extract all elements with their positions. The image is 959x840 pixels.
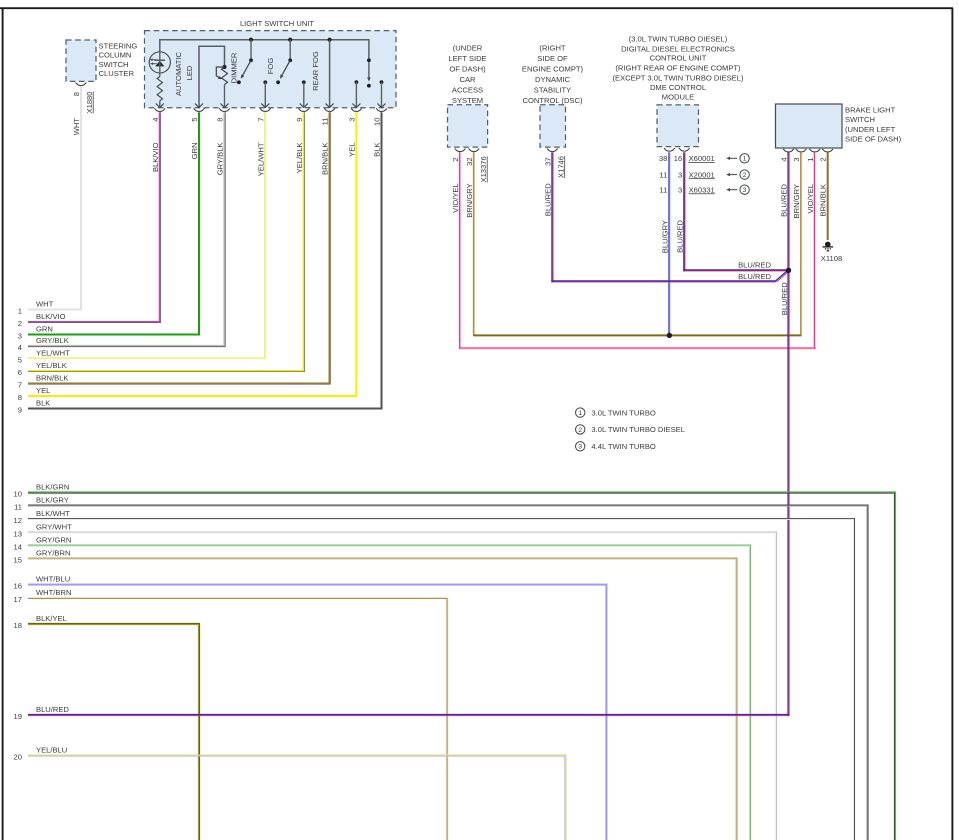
svg-text:15: 15 bbox=[14, 556, 22, 565]
svg-text:4: 4 bbox=[780, 157, 789, 161]
svg-text:SWITCH: SWITCH bbox=[99, 60, 129, 69]
svg-text:(3.0L TWIN TURBO DIESEL): (3.0L TWIN TURBO DIESEL) bbox=[629, 35, 728, 44]
LED D1 triangle bbox=[155, 61, 164, 67]
svg-text:GRY/BRN: GRY/BRN bbox=[36, 549, 70, 558]
wire frame top border bbox=[0, 7, 953, 9]
connector pin b of DME bbox=[679, 148, 690, 151]
potentiometer DIMMER bbox=[222, 67, 228, 85]
svg-text:(RIGHT: (RIGHT bbox=[539, 43, 566, 52]
wire 10 BLK/GRN bbox=[28, 492, 896, 840]
svg-text:8: 8 bbox=[72, 92, 81, 96]
pin 11 arrow bbox=[326, 104, 334, 108]
svg-text:6: 6 bbox=[18, 368, 22, 377]
svg-text:10: 10 bbox=[14, 490, 22, 499]
connector pin 8 of light switch unit bbox=[219, 108, 230, 111]
svg-text:1: 1 bbox=[806, 157, 815, 161]
wire dimmer to pin 8 bbox=[224, 85, 226, 107]
switch S3 right throw contact bbox=[380, 80, 384, 84]
svg-text:3.0L TWIN TURBO: 3.0L TWIN TURBO bbox=[591, 408, 656, 417]
svg-text:X1108: X1108 bbox=[821, 254, 842, 263]
svg-text:BLK/VIO: BLK/VIO bbox=[36, 312, 66, 321]
svg-text:3: 3 bbox=[678, 185, 682, 194]
svg-text:3: 3 bbox=[578, 444, 582, 451]
svg-text:(RIGHT REAR OF ENGINE COMPT): (RIGHT REAR OF ENGINE COMPT) bbox=[615, 64, 741, 73]
svg-text:ACCESS: ACCESS bbox=[452, 85, 483, 94]
connector pin 1 of brake light switch bbox=[809, 149, 820, 152]
wire 9 BLK bbox=[28, 112, 382, 408]
node bus junction 1 bbox=[249, 38, 253, 42]
svg-text:BLK/GRY: BLK/GRY bbox=[36, 496, 69, 505]
svg-text:GRY/GRN: GRY/GRN bbox=[36, 536, 71, 545]
connector pin 4 of brake light switch bbox=[783, 149, 794, 152]
svg-text:X60331: X60331 bbox=[689, 185, 715, 194]
svg-text:LED: LED bbox=[185, 65, 194, 80]
wire 16 WHT/BLU bbox=[28, 584, 607, 840]
svg-text:SYSTEM: SYSTEM bbox=[452, 96, 483, 105]
svg-text:GRY/BLK: GRY/BLK bbox=[216, 143, 225, 176]
svg-text:VIO/YEL: VIO/YEL bbox=[451, 183, 460, 213]
svg-text:37: 37 bbox=[543, 157, 552, 165]
svg-text:DIMMER: DIMMER bbox=[230, 52, 239, 83]
svg-text:BLU/RED: BLU/RED bbox=[780, 183, 789, 216]
switch S3 blade end contact bbox=[367, 84, 371, 88]
svg-text:BRN/BLK: BRN/BLK bbox=[36, 374, 69, 383]
svg-text:BRN/GRY: BRN/GRY bbox=[792, 184, 801, 218]
node bus junction 2 bbox=[288, 38, 292, 42]
svg-text:WHT: WHT bbox=[36, 300, 54, 309]
svg-text:16: 16 bbox=[14, 582, 22, 591]
svg-text:2: 2 bbox=[743, 172, 747, 179]
svg-text:3: 3 bbox=[678, 170, 682, 179]
svg-text:SWITCH: SWITCH bbox=[845, 115, 875, 124]
switch FOG blade end contact bbox=[237, 80, 241, 84]
switch S3 left throw contact bbox=[355, 80, 359, 84]
svg-text:SIDE OF: SIDE OF bbox=[537, 54, 568, 63]
svg-text:BLK/VIO: BLK/VIO bbox=[151, 142, 160, 172]
note circle 3 bbox=[740, 185, 749, 194]
note 2 legend bbox=[576, 425, 585, 434]
wire bus to fog contact bbox=[250, 40, 252, 59]
wire 3 GRN bbox=[28, 112, 199, 334]
LED D1 circle bbox=[149, 52, 170, 73]
svg-text:BLU/RED: BLU/RED bbox=[738, 260, 771, 269]
svg-text:GRN: GRN bbox=[36, 325, 53, 334]
wire left throw to pin 3 bbox=[355, 82, 357, 107]
svg-text:X13376: X13376 bbox=[479, 156, 488, 182]
switch REAR FOG common contact bbox=[288, 58, 292, 62]
switch REAR FOG blade bbox=[282, 60, 291, 76]
connector pin 10 of light switch unit bbox=[376, 108, 387, 111]
switch FOG blade bbox=[242, 60, 251, 76]
wire BLU/GRY DME to node bbox=[668, 152, 670, 333]
car access system box bbox=[448, 105, 488, 147]
svg-text:2: 2 bbox=[18, 319, 22, 328]
svg-text:BLU/RED: BLU/RED bbox=[36, 705, 69, 714]
wire 8 YEL bbox=[28, 112, 356, 396]
svg-text:DIGITAL DIESEL ELECTRONICS: DIGITAL DIESEL ELECTRONICS bbox=[621, 44, 735, 53]
wire supply bus bbox=[160, 40, 369, 59]
switch REAR FOG output contact bbox=[302, 80, 306, 84]
svg-text:1: 1 bbox=[18, 307, 22, 316]
svg-text:38: 38 bbox=[659, 154, 667, 163]
svg-text:3: 3 bbox=[347, 118, 356, 122]
svg-text:FOG: FOG bbox=[266, 58, 275, 75]
svg-text:11: 11 bbox=[321, 118, 330, 126]
wire dimmer wiper bbox=[216, 67, 224, 77]
svg-text:AUTOMATIC: AUTOMATIC bbox=[174, 51, 183, 96]
svg-text:12: 12 bbox=[14, 516, 22, 525]
svg-text:(UNDER: (UNDER bbox=[453, 43, 483, 52]
arrow to note 2 bbox=[729, 174, 738, 176]
svg-text:16: 16 bbox=[674, 154, 682, 163]
svg-text:19: 19 bbox=[14, 712, 22, 721]
svg-text:WHT/BLU: WHT/BLU bbox=[36, 575, 70, 584]
svg-text:WHT/BRN: WHT/BRN bbox=[36, 588, 71, 597]
LED D1 wire through bbox=[159, 60, 161, 76]
connector pin 7 of light switch unit bbox=[260, 108, 271, 111]
svg-text:BLK: BLK bbox=[36, 399, 50, 408]
svg-text:YEL/WHT: YEL/WHT bbox=[36, 349, 70, 358]
svg-text:X1880: X1880 bbox=[85, 92, 94, 114]
arrow to note 1 bbox=[729, 157, 738, 159]
wire 1 WHT bbox=[28, 87, 81, 310]
node dimmer top bbox=[222, 65, 226, 69]
svg-text:BLU/RED: BLU/RED bbox=[675, 219, 684, 252]
connector pin 5 of light switch unit bbox=[194, 108, 205, 111]
pin 8 arrow bbox=[221, 104, 229, 108]
connector pin 37 of DSC bbox=[547, 149, 558, 152]
switch FOG common contact bbox=[249, 58, 253, 62]
svg-text:3.0L TWIN TURBO DIESEL: 3.0L TWIN TURBO DIESEL bbox=[591, 425, 685, 434]
svg-text:13: 13 bbox=[14, 530, 22, 539]
svg-text:(EXCEPT 3.0L TWIN TURBO DIESEL: (EXCEPT 3.0L TWIN TURBO DIESEL) bbox=[613, 73, 744, 82]
svg-text:YEL/BLU: YEL/BLU bbox=[36, 746, 67, 755]
svg-text:CAR: CAR bbox=[459, 75, 476, 84]
svg-text:STABILITY: STABILITY bbox=[534, 85, 571, 94]
wire 2 BLK/VIO bbox=[28, 112, 159, 321]
svg-text:BLK/WHT: BLK/WHT bbox=[36, 509, 70, 518]
svg-text:14: 14 bbox=[14, 543, 22, 552]
wire 18 BLK/YEL bbox=[28, 623, 200, 840]
svg-text:STEERING: STEERING bbox=[99, 41, 138, 50]
pin 3 arrow bbox=[352, 104, 360, 108]
switch FOG output contact bbox=[263, 80, 267, 84]
pin 9 arrow bbox=[300, 104, 308, 108]
wire BRN/BLK brake pin 2 to ground bbox=[827, 152, 829, 240]
svg-text:10: 10 bbox=[373, 118, 382, 126]
svg-text:17: 17 bbox=[14, 595, 22, 604]
connector pin 2 of brake light switch bbox=[822, 149, 833, 152]
wire right throw to pin 10 bbox=[381, 82, 383, 107]
LED D1 cathode bar bbox=[155, 59, 165, 61]
wire 4 GRY/BLK bbox=[28, 112, 224, 345]
wire BLU/RED DSC to node bbox=[551, 152, 553, 282]
wire 12 BLK/WHT bbox=[28, 519, 854, 840]
svg-text:BLK/YEL: BLK/YEL bbox=[36, 614, 67, 623]
svg-text:4: 4 bbox=[18, 343, 22, 352]
svg-text:X60001: X60001 bbox=[689, 154, 715, 163]
svg-text:BLK: BLK bbox=[373, 143, 382, 157]
note 3 legend bbox=[576, 442, 585, 451]
wire 11 BLK/GRY bbox=[28, 505, 868, 840]
svg-text:9: 9 bbox=[18, 406, 22, 415]
connector pin 9 of light switch unit bbox=[298, 108, 309, 111]
svg-text:9: 9 bbox=[295, 118, 304, 122]
svg-text:8: 8 bbox=[18, 393, 22, 402]
svg-text:DME CONTROL: DME CONTROL bbox=[650, 83, 706, 92]
svg-text:2: 2 bbox=[451, 157, 460, 161]
svg-text:ENGINE COMPT): ENGINE COMPT) bbox=[522, 65, 584, 74]
svg-text:BRN/BLK: BRN/BLK bbox=[819, 184, 828, 217]
wire 6 YEL/BLK bbox=[28, 112, 303, 370]
switch S3 common contact bbox=[367, 58, 371, 62]
svg-text:5: 5 bbox=[18, 356, 22, 365]
node BLU/GRY to BRN/GRY junction bbox=[667, 333, 672, 338]
svg-text:BLU/RED: BLU/RED bbox=[543, 183, 552, 216]
svg-text:BLU/RED: BLU/RED bbox=[780, 282, 789, 315]
connector pin 11 of light switch unit bbox=[324, 108, 335, 111]
svg-text:GRY/WHT: GRY/WHT bbox=[36, 523, 72, 532]
wire 15 GRY/BRN bbox=[28, 558, 737, 840]
svg-text:7: 7 bbox=[18, 381, 22, 390]
svg-text:REAR FOG: REAR FOG bbox=[311, 51, 320, 91]
svg-text:SIDE OF DASH): SIDE OF DASH) bbox=[845, 135, 902, 144]
svg-text:3: 3 bbox=[18, 332, 22, 341]
svg-text:BRN/BLK: BRN/BLK bbox=[321, 143, 330, 176]
svg-text:2: 2 bbox=[819, 157, 828, 161]
wire fog output to pin 7 bbox=[264, 82, 266, 106]
svg-text:YEL/BLK: YEL/BLK bbox=[295, 143, 304, 174]
wire bus to pin 11 bbox=[329, 40, 331, 107]
connector pin 4 of light switch unit bbox=[154, 108, 165, 111]
wire 19 BLU/RED bbox=[28, 714, 789, 716]
ground X1108 bbox=[825, 242, 831, 248]
wire 13 GRY/WHT bbox=[28, 532, 776, 840]
svg-text:3: 3 bbox=[743, 187, 747, 194]
wire frame right border bbox=[951, 8, 953, 840]
arrow to note 3 bbox=[729, 189, 738, 191]
svg-text:X20001: X20001 bbox=[689, 170, 715, 179]
wire VIO/YEL car access to brake pin 1 bbox=[459, 152, 461, 349]
wire BRN/GRY car access to brake pin 3 bbox=[473, 152, 475, 336]
connector pin 8 of steering column bbox=[76, 83, 87, 86]
svg-text:3: 3 bbox=[792, 157, 801, 161]
pin 5 arrow bbox=[195, 104, 203, 108]
svg-text:LIGHT SWITCH UNIT: LIGHT SWITCH UNIT bbox=[240, 19, 314, 28]
DME control module box bbox=[657, 105, 699, 147]
svg-text:32: 32 bbox=[465, 157, 474, 165]
svg-text:18: 18 bbox=[14, 621, 22, 630]
svg-text:2: 2 bbox=[578, 427, 582, 434]
svg-text:4: 4 bbox=[151, 118, 160, 122]
svg-text:11: 11 bbox=[659, 170, 667, 179]
connector pin 3 of brake light switch bbox=[796, 149, 807, 152]
svg-text:YEL/BLK: YEL/BLK bbox=[36, 361, 67, 370]
dynamic stability control box bbox=[540, 105, 566, 147]
wire frame left border bbox=[2, 8, 4, 840]
wire 7 BRN/BLK bbox=[28, 112, 329, 383]
resistor R1 (LED series) bbox=[157, 77, 162, 101]
LED D1 light arrow 2 bbox=[153, 63, 157, 65]
steering column switch cluster box bbox=[66, 40, 96, 81]
svg-text:VIO/YEL: VIO/YEL bbox=[806, 184, 815, 214]
svg-text:LEFT SIDE: LEFT SIDE bbox=[448, 54, 486, 63]
svg-text:(UNDER LEFT: (UNDER LEFT bbox=[845, 125, 896, 134]
svg-text:GRN: GRN bbox=[190, 143, 199, 160]
brake light switch box bbox=[776, 104, 843, 148]
svg-text:7: 7 bbox=[256, 118, 265, 122]
pin 7 arrow bbox=[261, 104, 269, 108]
svg-text:GRY/BLK: GRY/BLK bbox=[36, 336, 69, 345]
note circle 2 bbox=[740, 170, 749, 179]
svg-text:DYNAMIC: DYNAMIC bbox=[535, 75, 571, 84]
wire rear fog output to pin 9 bbox=[303, 82, 305, 106]
LED D1 light arrow 1 bbox=[152, 59, 156, 61]
svg-text:11: 11 bbox=[659, 185, 667, 194]
svg-text:COLUMN: COLUMN bbox=[99, 51, 132, 60]
wire pin 5 branch bbox=[199, 46, 225, 106]
wire BLU/RED DME to node bbox=[683, 152, 685, 271]
node BLU/RED junction bbox=[786, 268, 791, 273]
wire bus to rear fog contact bbox=[289, 40, 291, 59]
svg-text:BLU/RED: BLU/RED bbox=[738, 272, 771, 281]
svg-text:BLK/GRN: BLK/GRN bbox=[36, 483, 69, 492]
connector pin 3 of light switch unit bbox=[351, 108, 362, 111]
svg-text:BLU/GRY: BLU/GRY bbox=[660, 220, 669, 253]
pin 4 arrow bbox=[156, 104, 164, 108]
wire 17 WHT/BRN bbox=[28, 597, 448, 840]
connector pin 32 of car access bbox=[469, 149, 480, 152]
svg-text:11: 11 bbox=[14, 503, 22, 512]
node bus junction 3 bbox=[328, 38, 332, 42]
wire 5 YEL/WHT bbox=[28, 112, 265, 358]
switch S3 blade bbox=[368, 62, 370, 78]
svg-text:YEL: YEL bbox=[36, 386, 50, 395]
svg-text:OF DASH): OF DASH) bbox=[449, 65, 486, 74]
svg-text:CLUSTER: CLUSTER bbox=[99, 69, 135, 78]
wire R1 to pin 4 bbox=[159, 101, 161, 107]
note 1 legend bbox=[576, 408, 585, 417]
svg-text:YEL: YEL bbox=[347, 143, 356, 157]
connector pin 2 of car access bbox=[455, 149, 466, 152]
svg-text:CONTROL (DSC): CONTROL (DSC) bbox=[522, 96, 583, 105]
svg-text:5: 5 bbox=[190, 118, 199, 122]
switch REAR FOG blade end contact bbox=[276, 80, 280, 84]
wire 14 GRY/GRN bbox=[28, 545, 750, 840]
svg-text:20: 20 bbox=[14, 753, 22, 762]
svg-text:1: 1 bbox=[743, 156, 747, 163]
svg-text:1: 1 bbox=[578, 410, 582, 417]
svg-text:X1746: X1746 bbox=[556, 156, 565, 178]
svg-text:MODULE: MODULE bbox=[662, 92, 695, 101]
svg-text:YEL/WHT: YEL/WHT bbox=[256, 142, 265, 176]
svg-text:BRN/GRY: BRN/GRY bbox=[465, 183, 474, 217]
wire BLU/RED brake pin 4 down bbox=[787, 152, 789, 716]
svg-text:BRAKE LIGHT: BRAKE LIGHT bbox=[845, 105, 896, 114]
connector pin a of DME bbox=[664, 148, 675, 151]
svg-text:8: 8 bbox=[216, 118, 225, 122]
svg-text:WHT: WHT bbox=[72, 118, 81, 136]
note circle 1 bbox=[740, 154, 749, 163]
wire 20 YEL/BLU bbox=[28, 755, 566, 840]
light switch unit box bbox=[145, 31, 397, 108]
pin 10 arrow bbox=[378, 104, 386, 108]
svg-text:CONTROL UNIT: CONTROL UNIT bbox=[650, 53, 707, 62]
svg-text:4.4L TWIN TURBO: 4.4L TWIN TURBO bbox=[591, 442, 656, 451]
